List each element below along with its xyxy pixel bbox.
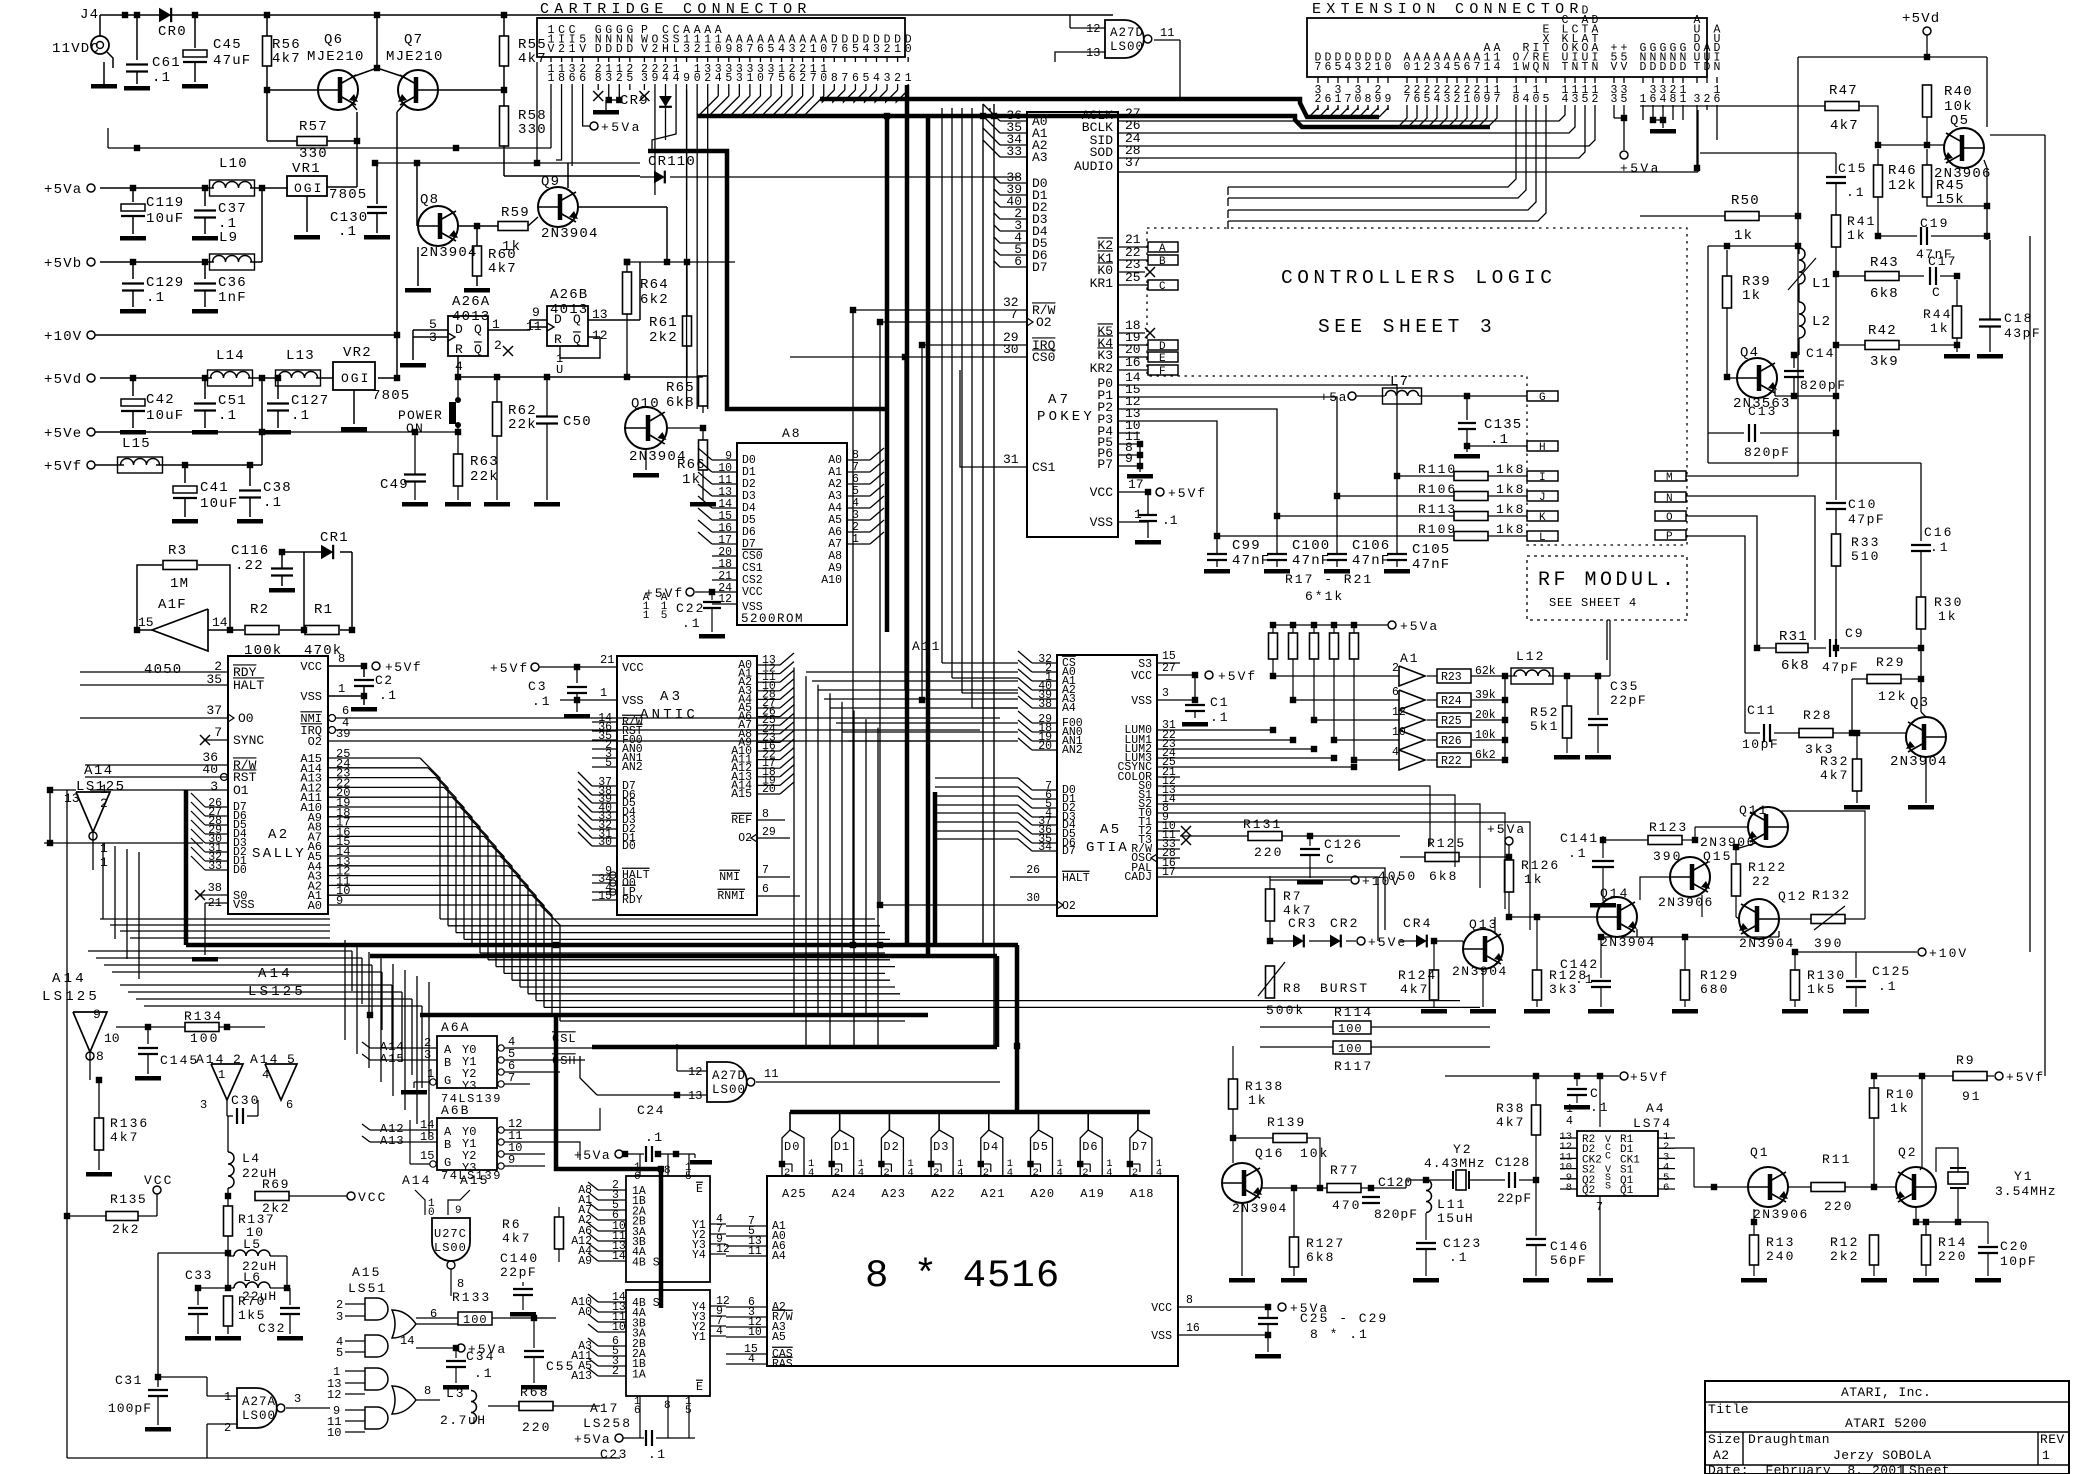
svg-text:B: B (1159, 256, 1166, 268)
svg-text:4: 4 (873, 72, 880, 85)
svg-text:R13: R13 (1766, 1235, 1795, 1250)
wire P box right (1686, 536, 1745, 733)
+5Ve terminal (87, 428, 95, 436)
svg-text:C15: C15 (1838, 161, 1867, 176)
svg-text:39: 39 (336, 727, 350, 741)
svg-text:VR2: VR2 (343, 345, 372, 361)
svg-text:680: 680 (1700, 982, 1729, 997)
resistor R66 1k (699, 440, 708, 470)
capacitor pokey decoupling .1 (1139, 514, 1157, 516)
svg-text:10: 10 (327, 1426, 341, 1440)
capacitor C2 .1 (363, 666, 365, 677)
svg-text:A20: A20 (1031, 1187, 1056, 1201)
resistor R136 4k7 (95, 1118, 104, 1150)
svg-text:56pF: 56pF (1550, 1253, 1587, 1268)
svg-text:13: 13 (688, 1089, 702, 1103)
svg-text:+5Vd: +5Vd (1902, 11, 1940, 27)
svg-text:2: 2 (1592, 93, 1599, 106)
resistor R33 510 (1832, 534, 1841, 566)
capacitor C42 10uF (130, 375, 136, 381)
svg-text:6: 6 (569, 72, 576, 85)
svg-text:2: 2 (799, 72, 806, 85)
svg-text:A4: A4 (772, 1250, 786, 1263)
svg-text:A22: A22 (931, 1187, 956, 1201)
svg-text:C146: C146 (1550, 1239, 1589, 1254)
svg-text:6k8: 6k8 (1781, 658, 1810, 674)
svg-text:3: 3 (1694, 93, 1701, 106)
svg-text:A13: A13 (571, 1370, 592, 1383)
svg-text:R131: R131 (1243, 817, 1282, 832)
svg-text:4B S: 4B S (632, 1256, 660, 1269)
svg-text:8: 8 (96, 1049, 104, 1064)
svg-text:R33: R33 (1851, 535, 1880, 550)
svg-text:A26A: A26A (452, 294, 490, 310)
wire Q9 top (567, 163, 569, 188)
svg-text:N: N (1666, 493, 1673, 505)
inductor L2 (1799, 302, 1805, 338)
svg-text:6: 6 (1392, 686, 1399, 699)
svg-text:MJE210: MJE210 (386, 49, 444, 65)
a6a outputs (498, 1045, 504, 1051)
svg-text:22: 22 (1752, 874, 1772, 889)
svg-text:100: 100 (1338, 1042, 1363, 1056)
svg-text:A26B: A26B (550, 287, 588, 303)
IC RAM 8x4516 box (767, 1176, 1178, 1366)
svg-text:.1: .1 (1878, 979, 1898, 994)
wire verticals antic to bottom (793, 668, 795, 1015)
svg-text:D1: D1 (834, 1140, 850, 1154)
svg-text:A10: A10 (821, 574, 842, 587)
capacitor C51 .1 (202, 375, 208, 381)
svg-text:22pF: 22pF (1610, 693, 1647, 708)
svg-text:Q7: Q7 (404, 32, 423, 48)
svg-text:Q3: Q3 (1910, 695, 1929, 711)
svg-text:C38: C38 (263, 480, 292, 496)
extension connector box (1307, 18, 1707, 77)
svg-text:5: 5 (626, 72, 633, 85)
svg-text:5: 5 (685, 1405, 692, 1417)
svg-text:1: 1 (569, 43, 576, 56)
svg-text:D: D (1670, 61, 1677, 74)
svg-text:A25: A25 (782, 1187, 807, 1201)
svg-text:3k3: 3k3 (1549, 982, 1578, 997)
svg-text:2: 2 (651, 43, 658, 56)
svg-text:C9: C9 (1845, 626, 1865, 641)
svg-text:11: 11 (764, 1067, 778, 1081)
svg-text:C49: C49 (380, 477, 409, 493)
svg-text:R7: R7 (1283, 889, 1303, 904)
svg-text:2: 2 (1365, 61, 1372, 74)
capacitor C18 43pF (1979, 318, 2001, 320)
svg-text:R46: R46 (1888, 163, 1917, 179)
svg-text:3.54MHz: 3.54MHz (1995, 1184, 2057, 1199)
ram left pins group2 (726, 1306, 767, 1308)
svg-text:R11: R11 (1822, 1152, 1851, 1167)
svg-text:C25 - C29: C25 - C29 (1300, 1311, 1388, 1326)
resistor R40 10k (1923, 85, 1932, 117)
svg-text:2: 2 (884, 43, 891, 56)
svg-text:8: 8 (424, 1384, 431, 1398)
svg-text:P7: P7 (1097, 457, 1113, 472)
svg-text:RNMI: RNMI (717, 890, 745, 903)
svg-text:SYNC: SYNC (233, 733, 264, 748)
svg-text:CARTRIDGE CONNECTOR: CARTRIDGE CONNECTOR (540, 1, 812, 18)
ls51 or gate upper (392, 1310, 416, 1338)
svg-text:100: 100 (1338, 1022, 1363, 1036)
svg-text:5: 5 (778, 72, 785, 85)
resistor R138 1k (1229, 1079, 1238, 1109)
svg-text:SOD: SOD (1090, 145, 1114, 160)
extension GND pins (1642, 110, 1644, 120)
ls51 or gate lower (392, 1386, 416, 1414)
svg-text:R1: R1 (314, 602, 333, 618)
svg-text:100: 100 (463, 1313, 488, 1327)
svg-text:C36: C36 (218, 275, 247, 291)
svg-text:R106: R106 (1418, 482, 1457, 497)
capacitor C99 47nF (1216, 536, 1218, 553)
svg-text:+5Vf: +5Vf (1630, 1070, 1669, 1085)
svg-text:R40: R40 (1944, 84, 1973, 100)
svg-text:T: T (1582, 61, 1589, 74)
svg-text:Q: Q (474, 322, 483, 337)
svg-text:4k7: 4k7 (518, 51, 547, 67)
svg-text:R3: R3 (168, 543, 187, 559)
svg-text:21: 21 (600, 653, 614, 667)
svg-text:3: 3 (1162, 687, 1169, 700)
capacitor C106 47nF (1336, 496, 1338, 553)
svg-text:R: R (554, 332, 563, 347)
svg-text:R14: R14 (1938, 1235, 1967, 1250)
svg-text:A27D: A27D (712, 1069, 746, 1083)
svg-text:C42: C42 (146, 392, 175, 408)
svg-text:5: 5 (725, 72, 732, 85)
svg-text:7: 7 (810, 72, 817, 85)
svg-text:7: 7 (1474, 61, 1481, 74)
svg-text:HALT: HALT (1062, 872, 1090, 885)
svg-text:POKEY: POKEY (1037, 409, 1095, 425)
svg-text:11VDC: 11VDC (52, 41, 100, 57)
svg-text:A15: A15 (380, 1052, 405, 1066)
svg-text:W: W (1523, 61, 1530, 74)
svg-text:8: 8 (338, 652, 345, 666)
svg-text:C33: C33 (185, 1268, 213, 1283)
svg-text:7: 7 (1345, 93, 1352, 106)
resistor R1 470k (305, 626, 339, 635)
pokey clk wires to extension (1145, 110, 1565, 121)
svg-text:D6: D6 (1082, 1140, 1098, 1154)
svg-text:33: 33 (1006, 144, 1022, 159)
svg-text:C32: C32 (258, 1321, 286, 1336)
resistor R137 10 (224, 1206, 233, 1236)
svg-text:10: 10 (1392, 726, 1406, 739)
svg-text:12: 12 (1086, 22, 1100, 36)
svg-text:L9: L9 (219, 230, 238, 246)
svg-text:14: 14 (212, 615, 228, 630)
bus thick vertical x186 sally data (184, 790, 189, 945)
svg-text:2.7uH: 2.7uH (440, 1413, 487, 1428)
svg-text:J: J (1539, 492, 1546, 504)
svg-text:3: 3 (683, 43, 690, 56)
svg-text:C24: C24 (637, 1103, 665, 1118)
wire gtia pal cadj (1180, 868, 1385, 930)
svg-text:2: 2 (834, 1167, 840, 1179)
svg-text:5: 5 (1454, 61, 1461, 74)
svg-text:5: 5 (1424, 93, 1431, 106)
svg-text:47nF: 47nF (1352, 553, 1390, 569)
svg-text:L14: L14 (216, 348, 245, 364)
svg-text:2: 2 (1315, 93, 1322, 106)
svg-text:3: 3 (641, 72, 648, 85)
svg-text:C18: C18 (2004, 311, 2033, 326)
antic right address pins (757, 664, 780, 666)
wire ram right to q16 (1267, 1306, 1269, 1308)
pokey AUDIO pin 37 (1118, 171, 1145, 173)
gtia VSS pin 3 (1157, 699, 1195, 701)
wire Q4 emitter row (1774, 390, 1776, 396)
svg-text:G: G (444, 1074, 451, 1088)
svg-text:Q16: Q16 (1255, 1146, 1284, 1161)
svg-text:+10V: +10V (44, 329, 82, 345)
bus data thick horizontal (820, 99, 1379, 117)
svg-text:16: 16 (1125, 355, 1141, 370)
svg-text:4: 4 (716, 1325, 723, 1338)
svg-text:91: 91 (1962, 1089, 1982, 1104)
svg-text:0: 0 (1385, 61, 1392, 74)
wire left loop x158 (158, 1252, 228, 1254)
box I (1527, 471, 1558, 481)
bus thick vertical x887 (885, 116, 890, 632)
svg-text:4: 4 (808, 1167, 814, 1179)
svg-text:ATARI 5200: ATARI 5200 (1845, 1416, 1927, 1431)
svg-text:1: 1 (218, 1068, 225, 1082)
wire O box right (1686, 516, 1757, 648)
cartridge A13 A12 A11 verticals (686, 90, 688, 409)
resistor R39 1k (1723, 276, 1732, 308)
antic halt group (592, 874, 617, 876)
svg-text:+5Va: +5Va (44, 182, 82, 198)
svg-text:4: 4 (455, 359, 463, 374)
svg-text:C125: C125 (1872, 964, 1911, 979)
svg-text:R22: R22 (1441, 755, 1462, 768)
svg-text:10: 10 (612, 1321, 626, 1334)
wire PWV O2 pins down (654, 90, 656, 195)
wire Q2 collector (1921, 1076, 1923, 1167)
svg-text:D: D (1159, 341, 1166, 353)
svg-text:A15: A15 (460, 1173, 489, 1188)
svg-text:D: D (1640, 61, 1647, 74)
pokey VSS pin 1 (1118, 521, 1148, 523)
svg-text:A21: A21 (981, 1187, 1006, 1201)
svg-text:Draughtman: Draughtman (1748, 1432, 1830, 1447)
svg-text:5200ROM: 5200ROM (741, 612, 804, 626)
svg-text:I: I (1539, 472, 1546, 484)
svg-text:1: 1 (1375, 61, 1382, 74)
svg-text:R129: R129 (1700, 968, 1739, 983)
svg-text:C142: C142 (1560, 957, 1599, 972)
svg-text:3: 3 (1572, 93, 1579, 106)
svg-text:4k7: 4k7 (1830, 118, 1859, 134)
wire vertical x994 (993, 104, 995, 1046)
svg-text:R123: R123 (1649, 820, 1688, 835)
rom address pins (847, 459, 870, 461)
resistor R13 240 (1750, 1235, 1759, 1265)
capacitor C41 10uF (182, 462, 188, 468)
capacitor C34 .1 (455, 1348, 457, 1358)
svg-text:2: 2 (1033, 1167, 1039, 1179)
svg-text:9: 9 (1125, 451, 1133, 466)
nand U27C LS00 vertical (432, 1218, 470, 1261)
pokey CS1 pin 31 (960, 370, 1027, 467)
svg-text:1: 1 (746, 72, 753, 85)
svg-text:R138: R138 (1245, 1079, 1284, 1094)
svg-text:6: 6 (1325, 93, 1332, 106)
+5Vf term rom (686, 588, 694, 596)
svg-text:VSS: VSS (1131, 695, 1152, 708)
svg-text:G: G (444, 1156, 451, 1170)
svg-text:VR1: VR1 (292, 161, 321, 177)
svg-text:C3: C3 (528, 679, 548, 694)
antic data pins (592, 785, 617, 787)
cartridge GND pins to ground (608, 90, 610, 100)
svg-text:Sheet: Sheet (1909, 1463, 1950, 1474)
pokey VCC pin 17 (1118, 491, 1148, 493)
box G (1527, 391, 1558, 401)
svg-text:AUDIO: AUDIO (1074, 159, 1113, 174)
svg-text:A19: A19 (1080, 1187, 1105, 1201)
svg-text:A4: A4 (1646, 1101, 1666, 1116)
svg-text:C51: C51 (218, 393, 247, 409)
svg-text:KR1: KR1 (1090, 276, 1114, 291)
svg-text:4: 4 (673, 72, 680, 85)
svg-text:22k: 22k (508, 417, 537, 433)
svg-text:LS51: LS51 (348, 1281, 387, 1296)
capacitor C37 .1 (202, 185, 208, 191)
nand A27A LS00 (237, 1388, 277, 1428)
svg-text:A27D: A27D (1110, 26, 1144, 40)
svg-text:6k2: 6k2 (640, 292, 669, 308)
svg-text:+5Vd: +5Vd (44, 372, 82, 388)
svg-text:CONTROLLERS LOGIC: CONTROLLERS LOGIC (1281, 267, 1556, 289)
svg-text:R122: R122 (1748, 860, 1787, 875)
svg-text:0: 0 (1404, 61, 1411, 74)
svg-text:8: 8 (595, 72, 602, 85)
wire pokey left diag joins (989, 108, 991, 111)
keypad box E (1148, 352, 1178, 362)
wire vertical x983 (982, 104, 984, 945)
svg-text:37: 37 (206, 703, 222, 718)
svg-text:2N3904: 2N3904 (1452, 964, 1508, 979)
svg-text:R25: R25 (1441, 715, 1462, 728)
svg-text:R44: R44 (1923, 307, 1952, 322)
svg-text:A11: A11 (912, 639, 941, 654)
bus thick vertical x935 gtia data (933, 792, 938, 945)
svg-text:.1: .1 (338, 224, 357, 240)
resistor R45 15k (1923, 165, 1932, 197)
svg-text:O2: O2 (1036, 315, 1052, 330)
svg-text:A0: A0 (578, 1306, 592, 1319)
svg-text:10uF: 10uF (200, 496, 238, 512)
svg-text:Q: Q (474, 342, 483, 357)
box K (1527, 511, 1558, 521)
extension AUDOUT wire (1696, 110, 1698, 168)
box J (1527, 491, 1558, 501)
wire verticals pokey control (941, 108, 943, 663)
wire row y463 to C16 (1708, 462, 1921, 464)
svg-text:3: 3 (200, 1098, 207, 1112)
diode CR110 horizontal (654, 171, 665, 184)
svg-text:D3: D3 (933, 1140, 949, 1154)
svg-text:B: B (444, 1138, 451, 1152)
buffer A14 triangle c (211, 1064, 243, 1100)
svg-text:E: E (696, 1183, 703, 1196)
svg-text:D4: D4 (983, 1140, 999, 1154)
svg-text:2: 2 (494, 338, 502, 353)
gtia O2 pin 30 (1010, 904, 1057, 906)
svg-text:D: D (626, 43, 633, 56)
antic VCC pin 21 (577, 666, 617, 668)
svg-text:43pF: 43pF (2004, 326, 2041, 341)
inductor L1 variable (1799, 248, 1805, 284)
svg-text:A14: A14 (52, 971, 87, 987)
svg-text:4: 4 (1523, 93, 1530, 106)
svg-text:O2: O2 (308, 735, 322, 749)
svg-text:A17: A17 (590, 1401, 619, 1416)
antic left pins (592, 721, 617, 723)
svg-text:L1: L1 (1812, 276, 1831, 292)
svg-text:L: L (673, 43, 680, 56)
svg-text:R136: R136 (110, 1116, 149, 1131)
svg-text:.1: .1 (1575, 972, 1595, 987)
svg-text:C1: C1 (1210, 695, 1230, 710)
svg-text:R139: R139 (1267, 1115, 1306, 1130)
pokey R/W pin 32 (985, 309, 1027, 311)
svg-text:10uF: 10uF (146, 408, 184, 424)
svg-text:13: 13 (1086, 46, 1100, 60)
extension AUDIN wire (1716, 110, 1718, 140)
svg-text:+5Vf: +5Vf (2006, 1070, 2045, 1085)
svg-text:2: 2 (1082, 1167, 1088, 1179)
svg-text:R117: R117 (1334, 1059, 1373, 1074)
svg-text:R: R (455, 342, 464, 357)
svg-text:8: 8 (558, 72, 565, 85)
svg-text:D: D (1650, 61, 1657, 74)
svg-text:4k7: 4k7 (1496, 1115, 1525, 1130)
svg-text:7805: 7805 (372, 388, 410, 404)
svg-text:LS00: LS00 (434, 1241, 467, 1255)
svg-text:.1: .1 (146, 290, 165, 306)
svg-text:+5Va: +5Va (601, 120, 642, 135)
capacitor C100 47nF (1276, 516, 1278, 553)
svg-text:0: 0 (820, 43, 827, 56)
svg-text:R31: R31 (1779, 629, 1808, 645)
P wire routing to R110 rows (1140, 385, 1397, 476)
svg-text:.1: .1 (474, 1366, 494, 1381)
svg-text:A24: A24 (832, 1187, 857, 1201)
sally VSS pin 1 (328, 695, 364, 697)
resistor R62 22k (493, 402, 502, 436)
svg-text:A3: A3 (660, 689, 683, 705)
+10V terminal right (1795, 951, 1917, 953)
svg-text:L2: L2 (1812, 314, 1831, 330)
svg-text:R8: R8 (1283, 981, 1303, 996)
svg-text:.1: .1 (648, 1447, 667, 1462)
svg-text:4: 4 (858, 1167, 864, 1179)
svg-text:Q1: Q1 (1620, 1185, 1634, 1197)
keypad box D (1148, 340, 1178, 350)
svg-text:L11: L11 (1437, 1197, 1466, 1212)
svg-text:RAS: RAS (772, 1358, 793, 1371)
svg-text:390: 390 (1814, 936, 1843, 951)
